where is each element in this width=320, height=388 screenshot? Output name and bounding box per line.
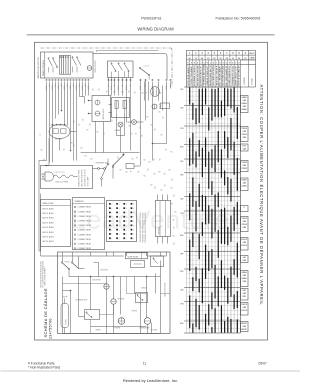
svg-text:BU: BU [91,159,93,161]
svg-text:BU: BU [173,236,175,238]
svg-text:BU FIL BLEU: BU FIL BLEU [43,213,55,215]
pilot lamp L1 [128,120,144,125]
svg-text:SYMBOLS: SYMBOLS [75,201,85,203]
svg-text:BU FIL BLEU: BU FIL BLEU [43,237,55,239]
power cord box labels [78,169,90,186]
svg-text:TIMER CONTROL: TIMER CONTROL [43,59,45,76]
svg-text:1: 1 [133,226,134,228]
svg-text:BU: BU [140,126,142,128]
svg-text:POMPE: POMPE [132,311,137,313]
svg-text:BU: BU [174,226,176,228]
motor relay box [136,293,148,303]
timer chart group lines [184,87,241,333]
svg-text:CONNECTEUR: CONNECTEUR [78,230,92,232]
svg-text:BU: BU [85,156,87,158]
svg-text:BU: BU [138,172,140,174]
diagram border frame [35,42,268,340]
cabinet box [58,252,171,334]
svg-text:BU: BU [131,170,133,172]
svg-text:BU: BU [64,148,66,150]
attention vertical note [259,85,264,306]
svg-text:NOISE FILTER: NOISE FILTER [128,257,140,259]
svg-text:BU: BU [131,134,133,136]
svg-text:BU: BU [147,117,149,119]
svg-text:TERRE: TERRE [96,330,101,332]
svg-text:CONNECTEUR: CONNECTEUR [78,225,92,227]
svg-text:FILTRE: FILTRE [66,319,68,324]
timer chart grid [187,87,241,333]
svg-text:TREMP: TREMP [241,162,247,164]
start relay K1 [152,102,170,109]
svg-text:MOTEUR: MOTEUR [118,299,125,301]
svg-text:LID SW: LID SW [144,66,150,68]
timer switch contacts [48,58,58,73]
svg-text:BU: BU [118,156,120,158]
svg-text:BU: BU [136,132,138,134]
svg-text:SONNERIE FIN CYCLE: SONNERIE FIN CYCLE [232,65,234,86]
footer date [259,362,267,366]
symbol legend [73,198,105,251]
svg-text:ESSOR: ESSOR [241,304,247,306]
svg-text:EAU TIEDE LAVAGE RI: EAU TIEDE LAVAGE RI [225,66,228,86]
svg-text:CAME: CAME [249,57,255,60]
svg-text:BU: BU [129,90,131,92]
svg-text:VITESSE: VITESSE [244,77,246,85]
svg-text:BU: BU [165,184,167,186]
svg-text:BU: BU [154,158,156,160]
svg-text:MINUTERIE MOTEUR A: MINUTERIE MOTEUR A [212,65,215,86]
svg-text:MOTEUR: MOTEUR [151,330,158,332]
svg-text:BU: BU [107,90,109,92]
svg-text:BU: BU [146,91,148,93]
motor leads [41,132,77,252]
svg-text:BU: BU [90,123,92,125]
extra branch wires [39,82,163,252]
power cord squiggle [54,172,78,184]
wire color labels under pins [46,85,172,90]
svg-text:1: 1 [133,230,134,232]
svg-text:Publication No: 5995490991: Publication No: 5995490991 [216,17,261,21]
svg-text:Rendered by LeadVenture, Inc.: Rendered by LeadVenture, Inc. [123,378,178,383]
svg-text:BU: BU [41,150,43,152]
svg-text:CONNECTEUR: CONNECTEUR [78,234,92,236]
svg-text:BU: BU [175,212,177,214]
footer rendered by [123,378,178,383]
svg-text:BU: BU [132,159,134,161]
svg-text:CONNECTEUR: CONNECTEUR [78,211,92,213]
svg-text:BU: BU [155,186,157,188]
svg-text:BU FIL BLEU: BU FIL BLEU [43,208,55,210]
water valve V1 box [92,96,111,122]
svg-text:ESSORAGE VITESSE H: ESSORAGE VITESSE H [193,65,196,86]
svg-text:BU: BU [142,134,144,136]
svg-text:* Non-Illustrated Parts: * Non-Illustrated Parts [28,366,61,370]
svg-text:BU: BU [164,174,166,176]
svg-text:TREMP: TREMP [241,168,247,170]
wire junction right pair [152,143,167,161]
svg-text:BU: BU [112,119,114,121]
cabinet side label [164,283,166,297]
svg-text:ATTENTION: COUPER L'ALIMENTA: ATTENTION: COUPER L'ALIMENTATION ÉLECTRI… [259,85,264,306]
svg-text:BU: BU [172,178,174,180]
svg-text:BU: BU [137,156,139,158]
svg-text:BU: BU [144,176,146,178]
svg-text:120 VOLTS 60 HZ: 120 VOLTS 60 HZ [164,283,166,297]
harness wires [47,78,171,166]
svg-text:BU: BU [71,143,73,145]
line filter FL1 [61,299,69,334]
console dashed boundary [41,48,173,87]
svg-text:1: 1 [133,204,134,206]
svg-text:CONTACT DE LAVAGE: CONTACT DE LAVAGE [190,66,193,86]
svg-text:BU: BU [93,88,95,90]
terminal board TB1 [107,201,137,242]
svg-text:1: 1 [133,217,134,219]
selector switch S2 box [108,61,134,78]
svg-text:SCHÉMA DE CÂBLAGE: SCHÉMA DE CÂBLAGE [43,288,48,338]
svg-text:BU: BU [120,170,122,172]
svg-text:BU: BU [44,158,46,160]
svg-text:RINCAGE EAU FROIDE: RINCAGE EAU FROIDE [196,65,199,86]
svg-text:BU FIL BLEU: BU FIL BLEU [43,218,55,220]
svg-text:BU: BU [171,188,173,190]
svg-text:FWS933FS1: FWS933FS1 [141,17,162,21]
aux pressure switch blade [101,159,109,187]
svg-text:MOTEUR ESSORAGE H: MOTEUR ESSORAGE H [238,64,241,85]
svg-text:BU: BU [171,152,173,154]
dispenser solenoid box [112,98,130,118]
svg-text:CONNECTEUR: CONNECTEUR [78,239,92,241]
svg-text:BU: BU [97,132,99,134]
svg-text:BU: BU [166,148,168,150]
svg-text:VALVE EAU CHAUDE B: VALVE EAU CHAUDE B [215,65,218,86]
svg-text:BU: BU [148,168,150,170]
svg-text:1: 1 [133,213,134,215]
timer chart header [187,50,256,87]
svg-text:PORTE: PORTE [65,262,70,264]
svg-text:BU: BU [126,172,128,174]
svg-text:CONNECTEUR: CONNECTEUR [78,207,92,209]
svg-text:POMPE: POMPE [115,328,120,330]
svg-text:134755700: 134755700 [49,318,53,339]
timer chart cycle label boxes [241,87,249,333]
svg-text:WATER LEVEL SWITCH: WATER LEVEL SWITCH [37,57,40,79]
lid switch S3 [139,66,150,80]
door switch S4 [61,257,78,277]
svg-text:BU: BU [159,172,161,174]
cabinet top terminals [63,252,161,256]
svg-text:BU FIL BLEU: BU FIL BLEU [43,232,55,234]
svg-text:1: 1 [133,208,134,210]
timer cam bank [59,56,81,75]
aux component box [131,261,145,268]
schema vertical title [43,288,53,339]
svg-text:EAU FROIDE RINCAGE: EAU FROIDE RINCAGE [222,65,225,86]
svg-text:BU: BU [74,120,76,122]
svg-text:TIMER MOTOR: TIMER MOTOR [95,60,97,73]
svg-text:EAU CHAUDE LAVAGE: EAU CHAUDE LAVAGE [219,65,222,85]
header publication number [216,17,261,21]
svg-text:BU: BU [160,93,162,95]
svg-text:BU: BU [172,202,174,204]
power cord box [41,166,93,189]
buzzer BZ [115,122,124,132]
svg-text:TREMPAGE BAS NIVEAU: TREMPAGE BAS NIVEAU [203,63,206,85]
svg-text:CONNECTEUR: CONNECTEUR [78,248,92,250]
svg-text:MOTEUR DE LAVAGE C: MOTEUR DE LAVAGE C [187,65,190,86]
timer chart row labels [180,89,185,325]
svg-text:1: 1 [133,234,134,236]
svg-text:BU: BU [122,92,124,94]
svg-text:BU: BU [144,160,146,162]
svg-text:ESSOR: ESSOR [241,310,247,312]
svg-text:BU: BU [174,242,176,244]
svg-text:CYCLE: CYCLE [252,78,254,85]
svg-text:WIRE CODE: WIRE CODE [43,203,55,205]
svg-text:LAMPE TEMOIN CUVE: LAMPE TEMOIN CUVE [234,65,237,85]
svg-text:REMPLISSAGE EAU CH: REMPLISSAGE EAU CH [209,64,212,85]
footer page number [143,362,147,366]
svg-text:FILTRE: FILTRE [63,297,68,299]
svg-text:BU: BU [161,135,163,137]
power plug P1 [42,172,54,181]
thermostat TH2 [140,318,151,330]
svg-text:ESSOR: ESSOR [241,239,247,241]
title WIRING DIAGRAM [137,27,174,32]
svg-text:BU: BU [129,126,131,128]
svg-text:MINUT: MINUT [249,53,256,55]
svg-text:BU: BU [169,170,171,172]
title rule [27,34,275,36]
svg-text:BU: BU [151,185,153,187]
svg-text:BU: BU [142,93,144,95]
pump motor P1 [115,318,125,330]
motor M1 [49,124,70,141]
svg-text:PRESSURE SW: PRESSURE SW [96,163,108,165]
svg-text:BU: BU [149,162,151,164]
svg-text:BU FIL BLEU: BU FIL BLEU [43,227,55,229]
line conductor run [41,247,167,259]
svg-text:BU: BU [74,144,76,146]
svg-text:BU FIL BLEU: BU FIL BLEU [43,222,55,224]
svg-text:BU: BU [81,148,83,150]
wire color legend [41,200,71,247]
svg-text:CONNECTEUR: CONNECTEUR [78,216,92,218]
footer functional parts note [28,362,61,370]
svg-text:BU: BU [161,190,163,192]
svg-text:05/07: 05/07 [259,362,267,366]
svg-text:BU: BU [173,220,175,222]
wire jogs and junctions [46,97,112,167]
svg-text:BU: BU [151,125,153,127]
svg-text:BU: BU [155,128,157,130]
timer chart cam bars [189,87,238,332]
svg-text:BU: BU [83,118,85,120]
svg-text:BU: BU [154,174,156,176]
console top wire [93,51,167,80]
svg-text:WIRING DIAGRAM: WIRING DIAGRAM [137,27,174,32]
svg-text:CONNECTEUR: CONNECTEUR [78,221,92,223]
console connector pin row [46,79,171,81]
svg-text:BU: BU [79,123,81,125]
schema warning vertical text [40,261,47,287]
svg-text:11: 11 [143,362,147,366]
svg-text:BU: BU [163,116,165,118]
pressure switch PS1 [81,153,141,179]
svg-text:INTERRUPTEUR: INTERRUPTEUR [76,300,89,302]
svg-text:BU: BU [104,132,106,134]
svg-text:CORDON 120V: CORDON 120V [54,172,66,174]
svg-text:SEULEMENT 120 VOLTS: SEULEMENT 120 VOLTS [85,169,87,186]
svg-text:BU: BU [40,133,42,135]
svg-text:ESSOR: ESSOR [241,245,247,247]
timer T1 box [41,52,94,78]
svg-text:CONNECTEUR: CONNECTEUR [78,244,92,246]
svg-text:BU: BU [160,158,162,160]
wire label specks [40,88,177,244]
motor start winding [151,87,160,97]
svg-text:VIDANGE POMPE MOT: VIDANGE POMPE MOT [206,65,209,86]
header model number FWS933FS1 [141,17,162,21]
svg-text:POMPE VIDANGE ESS: POMPE VIDANGE ESS [228,65,231,85]
cabinet internal wires [63,256,171,333]
svg-text:MINUTERIE: MINUTERIE [93,280,101,282]
svg-text:MOTOR: MOTOR [55,139,62,141]
svg-text:AGITATION HAUTE VIT: AGITATION HAUTE VIT [199,65,202,86]
console left label [37,57,40,79]
svg-text:ESS: ESS [243,146,246,148]
svg-text:BU: BU [114,92,116,94]
svg-text:BU: BU [159,112,161,114]
timer motor TM [87,60,97,73]
svg-text:BU: BU [99,88,101,90]
drive motor symbol [111,299,116,304]
svg-text:BU: BU [87,130,89,132]
interference filter box [156,195,171,244]
relay K2 box [85,310,100,320]
svg-text:BU FIL BLEU: BU FIL BLEU [43,241,55,243]
svg-text:1: 1 [133,238,134,240]
svg-text:1: 1 [133,221,134,223]
watermark [71,205,229,235]
notes vertical text [139,212,147,243]
svg-text:BU: BU [135,91,137,93]
svg-text:SECURITE: SECURITE [101,270,109,272]
svg-text:BU: BU [174,194,176,196]
footer rule [1,370,301,372]
timer motor TM2 symbol [104,284,109,289]
